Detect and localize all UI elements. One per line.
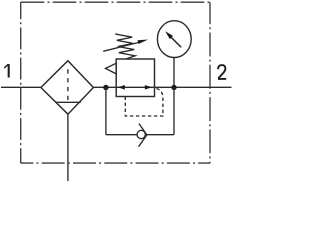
wire port1 to filter [1, 86, 41, 88]
enclosure border bottom [21, 162, 210, 164]
regulator R body [116, 59, 154, 97]
enclosure border top [21, 1, 210, 3]
check valve seat [139, 124, 147, 147]
pilot line dashed loop [125, 88, 163, 116]
port label 2 [218, 65, 226, 79]
adjustment spring zigzag [115, 34, 135, 59]
pressure gauge G [157, 21, 191, 58]
adjustment arrow head [138, 40, 149, 45]
wire regulator to port2 [155, 86, 232, 88]
gauge needle head [165, 31, 173, 39]
relief vent triangle [106, 63, 117, 74]
filter separator baffle [55, 101, 80, 103]
gauge needle shaft [171, 37, 182, 48]
adjustment arrow shaft [103, 42, 140, 51]
regulator flow arrow right [145, 85, 152, 89]
bypass left leg wire [105, 88, 107, 135]
filter F diamond [41, 61, 94, 114]
drain line [67, 114, 69, 181]
filter element dashed [67, 69, 69, 102]
bypass right wire to node B [147, 134, 174, 136]
enclosure border right [209, 2, 211, 163]
gauge stem wire [173, 57, 175, 87]
check valve ball [137, 130, 145, 138]
wire through regulator [116, 86, 154, 88]
port label 1 [4, 64, 9, 77]
enclosure border left [20, 2, 22, 163]
wire filter to regulator [93, 86, 116, 88]
bypass bottom wire [106, 134, 137, 136]
regulator flow arrow left [118, 85, 125, 90]
node B junction dot [171, 85, 176, 90]
node A junction dot [103, 85, 108, 90]
